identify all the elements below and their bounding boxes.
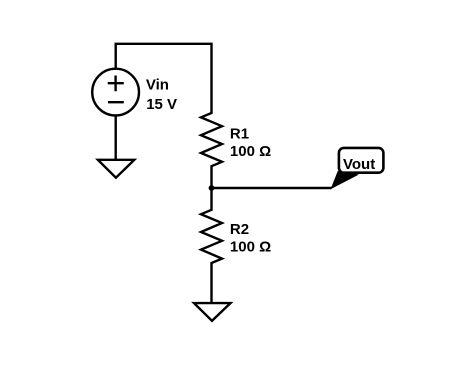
svg-text:100 Ω: 100 Ω	[230, 143, 271, 160]
svg-text:100 Ω: 100 Ω	[230, 239, 271, 256]
svg-text:Vout: Vout	[343, 156, 375, 173]
svg-text:R2: R2	[230, 221, 249, 238]
svg-text:Vin: Vin	[146, 77, 169, 94]
svg-text:15 V: 15 V	[146, 96, 177, 113]
svg-text:R1: R1	[230, 126, 249, 143]
